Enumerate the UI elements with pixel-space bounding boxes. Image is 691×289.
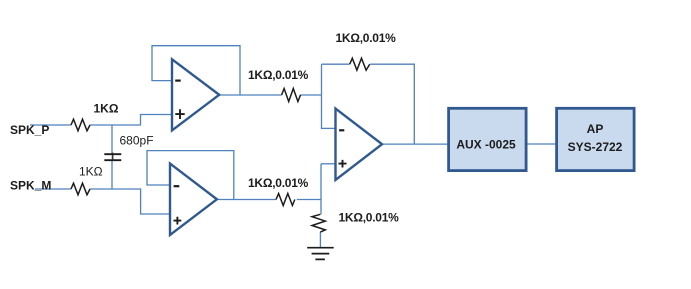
U3 - pin label <box>339 129 344 131</box>
U3 + pin label <box>339 160 347 168</box>
wire node C vertical to U3 - input <box>322 64 336 128</box>
resistor R6 1KΩ 0.01% (to ground, vertical) <box>312 214 325 232</box>
svg-text:1KΩ: 1KΩ <box>94 102 119 116</box>
svg-text:680pF: 680pF <box>120 134 154 148</box>
wire node D vertical top turn to + input <box>321 163 336 165</box>
box AP SYS-2722 <box>557 108 635 170</box>
wire capacitor C1 bottom to node B <box>111 160 113 189</box>
wire node D vertical to U3 + input <box>320 164 322 215</box>
op-amp U1 (top buffer) <box>172 59 219 130</box>
wire R5 to right vertical of feedback <box>370 64 414 144</box>
capacitor C1 680pF lead stub <box>112 153 114 160</box>
wire AUX box to AP box <box>526 143 557 145</box>
wire U3 feedback left to R5 <box>322 63 350 65</box>
svg-text:1KΩ,0.01%: 1KΩ,0.01% <box>339 211 400 225</box>
box AUX-0025 <box>449 108 526 170</box>
op-amp U2 (bottom buffer) <box>170 164 217 235</box>
svg-text:1KΩ: 1KΩ <box>79 165 103 179</box>
U2 + pin label <box>174 217 182 225</box>
svg-text:AP: AP <box>587 122 604 136</box>
wire SPK_M input to R2 <box>35 188 71 190</box>
svg-text:AUX -0025: AUX -0025 <box>456 137 516 151</box>
resistor R3 1KΩ 0.01% (U1 output) <box>282 89 301 102</box>
wire R3 to node C <box>300 94 322 96</box>
capacitor C1 680pF top plate <box>104 153 121 155</box>
U1 + pin label <box>175 109 184 119</box>
U1 - pin label <box>175 79 181 81</box>
wire SPK_P input to R1 <box>30 124 71 126</box>
wire R2 to node B to opamp U2 + input <box>90 189 170 214</box>
resistor R4 1KΩ 0.01% (U2 output) <box>276 194 295 206</box>
wire U2 feedback loop output to - input <box>147 151 234 200</box>
svg-text:SPK_P: SPK_P <box>10 123 49 137</box>
svg-text:SPK_M: SPK_M <box>10 179 51 193</box>
op-amp U3 (difference amp) <box>336 109 383 180</box>
resistor R1 1KΩ (SPK_P series) <box>71 119 90 131</box>
wire node A to capacitor C1 top <box>111 125 113 154</box>
wire R4 to node D <box>297 199 321 201</box>
wire U2 output to R4 <box>217 199 276 201</box>
resistor R2 1KΩ (SPK_M series) <box>71 183 90 195</box>
svg-text:1KΩ,0.01%: 1KΩ,0.01% <box>336 31 397 45</box>
ground symbol <box>307 248 334 260</box>
wire R1 to node A (junction with C1 and opamp U1 +) <box>90 115 172 126</box>
resistor R5 1KΩ 0.01% (U3 feedback) <box>350 58 370 70</box>
wire U1 output to R3 <box>219 94 282 96</box>
wire R6 bottom to ground <box>319 232 321 248</box>
capacitor C1 680pF bottom plate <box>104 159 121 161</box>
U2 - pin label <box>174 185 180 187</box>
svg-text:SYS-2722: SYS-2722 <box>568 140 623 154</box>
svg-text:1KΩ,0.01%: 1KΩ,0.01% <box>248 68 309 82</box>
svg-text:1KΩ,0.01%: 1KΩ,0.01% <box>248 176 309 190</box>
wire U1 feedback loop output to - input <box>152 46 240 95</box>
wire U3 output to AUX box <box>382 143 449 145</box>
